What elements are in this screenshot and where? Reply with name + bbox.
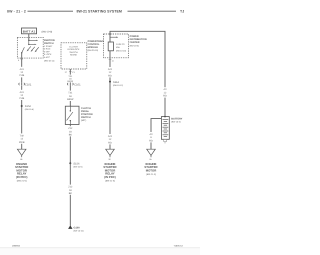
svg-text:(8W-21-5): (8W-21-5)	[105, 179, 115, 182]
svg-text:86: 86	[20, 158, 23, 161]
svg-text:3 OFF: 3 OFF	[44, 50, 51, 53]
svg-text:8W - 21 - 2: 8W - 21 - 2	[7, 10, 26, 14]
svg-text:TJ8W212: TJ8W212	[174, 244, 184, 247]
svg-text:RD: RD	[149, 139, 153, 142]
wire label A41 12 YL	[18, 67, 26, 78]
clutch switch label	[81, 107, 93, 122]
svg-text:5 LOCK: 5 LOCK	[44, 53, 52, 56]
splice S114	[109, 81, 111, 83]
svg-text:(8W-10-11): (8W-10-11)	[44, 59, 55, 62]
svg-text:CENTER: CENTER	[130, 41, 140, 44]
svg-text:MOTOR: MOTOR	[146, 168, 157, 172]
battery	[161, 117, 169, 140]
wire label A21 12 RD	[106, 67, 114, 77]
svg-text:(8W-30-16): (8W-30-16)	[88, 49, 99, 52]
svg-text:8W-21 STARTING SYSTEM: 8W-21 STARTING SYSTEM	[77, 10, 122, 14]
wire label A0 12 RD (battery feed)	[161, 87, 168, 97]
svg-text:S152: S152	[25, 105, 32, 108]
engine starter motor relay label (col 3)	[103, 162, 116, 182]
engine starter motor label (col 4)	[144, 162, 157, 176]
svg-text:(8W-15-6): (8W-15-6)	[25, 108, 34, 111]
PCM internal label	[68, 46, 81, 57]
fuse 23	[108, 42, 113, 51]
svg-text:BK/W: BK/W	[67, 98, 74, 101]
wire fuse output	[109, 51, 111, 149]
powertrain control module box (dashed)	[61, 43, 87, 69]
off-page triangle to starter motor (col 4)	[147, 149, 156, 157]
svg-text:J998W4: J998W4	[12, 244, 21, 247]
svg-text:27: 27	[65, 71, 68, 74]
wire PCM down	[69, 69, 71, 83]
engine starter motor relay label (col 1)	[15, 162, 28, 182]
svg-text:RD: RD	[108, 74, 112, 77]
svg-text:(8W-10-20): (8W-10-20)	[116, 49, 126, 52]
header right rule	[128, 10, 177, 12]
power distribution center box (dashed)	[104, 34, 129, 58]
clutch switch contacts	[67, 106, 73, 124]
svg-text:BK/W: BK/W	[68, 80, 75, 83]
page bottom edge	[0, 247, 200, 249]
svg-text:SWITCH: SWITCH	[81, 116, 91, 119]
off-page triangle to starter relay (col 1)	[17, 149, 26, 157]
clutch pedal position switch box	[65, 106, 79, 124]
svg-text:(IN PDC): (IN PDC)	[104, 175, 116, 179]
wire label Z12 18 BK	[66, 185, 74, 195]
svg-text:11: 11	[112, 59, 115, 62]
svg-text:(8W-21-5): (8W-21-5)	[17, 179, 27, 182]
svg-text:C1: C1	[72, 71, 75, 74]
PCM pins 27 C1	[65, 71, 76, 74]
splice S152	[21, 105, 23, 107]
battery positive cable to starter	[151, 119, 161, 150]
PDC label	[130, 35, 147, 47]
svg-text:4 ACC: 4 ACC	[44, 56, 51, 59]
ignition switch label	[44, 39, 55, 62]
svg-text:4: 4	[18, 59, 20, 62]
svg-text:(8W-10-8): (8W-10-8)	[42, 30, 53, 33]
wire label Z12	[66, 126, 74, 136]
connector C101 (column 1)	[19, 82, 32, 86]
bus junction and arrow	[109, 33, 118, 38]
svg-text:B+: B+	[150, 158, 153, 161]
pin tick col1	[20, 58, 23, 60]
svg-text:(8W-15-2): (8W-15-2)	[171, 121, 181, 124]
wire label T41 18	[67, 75, 74, 83]
splice S156	[69, 162, 71, 164]
svg-text:1 START: 1 START	[44, 45, 53, 48]
svg-text:RD: RD	[163, 95, 167, 98]
wire clutch switch to splice	[69, 125, 71, 164]
svg-text:(8W-10-3): (8W-10-3)	[130, 44, 140, 47]
ignition switch contacts	[21, 40, 39, 54]
svg-text:(8W-15-15): (8W-15-15)	[74, 230, 84, 233]
svg-text:SENSE: SENSE	[70, 54, 78, 57]
svg-text:BATTERY: BATTERY	[171, 118, 182, 121]
svg-text:(8W-10-12): (8W-10-12)	[113, 84, 123, 87]
svg-text:MODULE: MODULE	[88, 46, 99, 49]
svg-text:CLUTCH: CLUTCH	[69, 46, 78, 49]
off-page triangle to starter relay (col 3)	[106, 149, 115, 157]
svg-text:40A: 40A	[116, 46, 120, 49]
wire label A0 6 RD	[147, 132, 154, 142]
svg-text:S114: S114	[113, 81, 119, 84]
wire label T41 18 BK	[66, 91, 74, 101]
ground G100	[68, 225, 72, 229]
svg-text:SWITCH: SWITCH	[44, 42, 54, 45]
wire splice to ground	[69, 163, 71, 225]
svg-text:(8W-21-3): (8W-21-3)	[146, 173, 156, 176]
svg-text:INTERLOCK: INTERLOCK	[68, 48, 81, 51]
wire label A21 12 RD lower	[106, 134, 114, 144]
svg-text:BK: BK	[69, 192, 73, 195]
svg-text:C101: C101	[74, 83, 81, 86]
PCM label	[88, 40, 105, 52]
svg-text:S156: S156	[73, 162, 80, 165]
ignition switch box (dashed)	[17, 37, 43, 58]
wire BATT A1 to ignition switch	[28, 34, 30, 41]
svg-text:PK/B: PK/B	[19, 141, 25, 144]
svg-text:C101: C101	[25, 83, 32, 86]
svg-text:(8W-15-6): (8W-15-6)	[73, 166, 82, 169]
svg-text:RD: RD	[108, 141, 112, 144]
wire label T40 12 PK	[18, 133, 26, 143]
fuse feed box BATT A1	[22, 28, 37, 34]
svg-text:TJ: TJ	[180, 10, 184, 14]
pin tick col2	[69, 71, 72, 73]
svg-text:30: 30	[108, 158, 111, 161]
svg-text:2 RUN: 2 RUN	[44, 48, 51, 51]
wire label A41 12 YL	[18, 90, 26, 100]
wire ignition switch start output	[21, 53, 23, 149]
pin tick col3	[109, 58, 112, 60]
svg-text:BK: BK	[69, 134, 73, 137]
svg-text:YL/B: YL/B	[19, 74, 25, 77]
header left rule	[28, 10, 74, 12]
svg-text:YL/B: YL/B	[19, 97, 25, 100]
svg-text:(IN PDC): (IN PDC)	[16, 175, 28, 179]
B+ bus wire from battery to PDC	[110, 31, 165, 116]
svg-text:FUSE 23: FUSE 23	[116, 43, 125, 46]
connector C101 (column 2)	[67, 82, 81, 86]
svg-text:G100: G100	[74, 227, 81, 230]
svg-text:SWITCH: SWITCH	[69, 51, 78, 54]
svg-text:(M/T): (M/T)	[81, 119, 86, 122]
svg-text:BATT A1: BATT A1	[23, 30, 36, 34]
wire to clutch switch	[69, 86, 71, 107]
